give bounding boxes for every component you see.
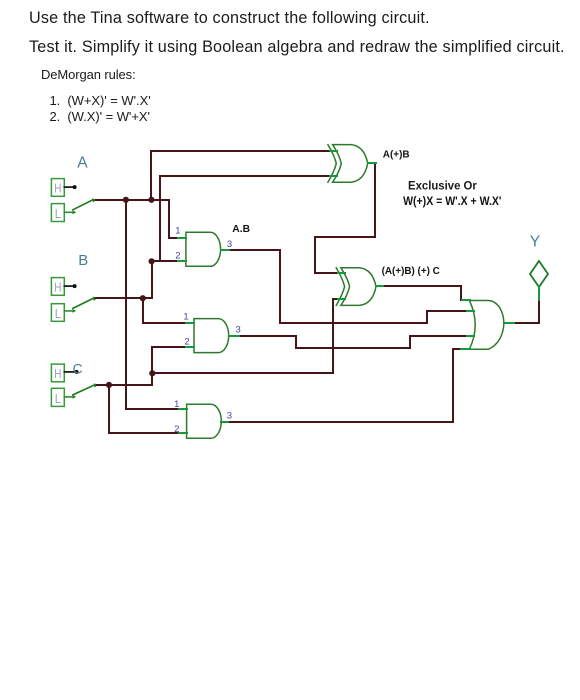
label A bbox=[77, 154, 88, 171]
wire net-A to AND1 pin1 bbox=[151, 200, 180, 238]
wire net-A to XOR1 pin1 bbox=[151, 151, 330, 200]
AND2 pin number 3 bbox=[236, 324, 241, 335]
switch SW-B H terminal box bbox=[51, 278, 64, 296]
svg-text:L: L bbox=[55, 206, 61, 221]
subheading DeMorgan rules bbox=[41, 67, 136, 82]
svg-text:H: H bbox=[54, 366, 61, 381]
label A.B bbox=[232, 223, 250, 235]
svg-text:L: L bbox=[55, 391, 61, 406]
junction node B1 bbox=[140, 295, 146, 301]
label (A(+)B) (+) C bbox=[382, 265, 441, 277]
xor-gate (A(+)B)(+)C (XOR2) leading arc bbox=[336, 268, 344, 306]
switch SW-C L terminal box bbox=[51, 388, 64, 406]
switch SW-C H stub bbox=[64, 370, 78, 374]
switch SW-B L terminal box bbox=[51, 304, 64, 322]
svg-text:A.B: A.B bbox=[232, 223, 250, 235]
xor-gate A(+)B (XOR1) body bbox=[330, 145, 376, 183]
svg-text:2: 2 bbox=[174, 424, 179, 435]
AND2 pin number 2 bbox=[184, 337, 189, 348]
and-gate A.C (AND3) body bbox=[179, 404, 228, 438]
switch SW-C H terminal box bbox=[51, 364, 64, 382]
label Exclusive Or bbox=[408, 178, 477, 192]
rule 2 bbox=[50, 109, 150, 124]
label C bbox=[73, 360, 83, 376]
svg-text:Y: Y bbox=[530, 233, 540, 250]
wire net-B to AND1 pin2 bbox=[143, 261, 180, 298]
wire net-B main bbox=[96, 297, 143, 299]
switch SW-A H terminal box bbox=[51, 179, 64, 197]
switch SW-B lever bbox=[73, 297, 98, 309]
heading line 2 bbox=[29, 38, 565, 57]
rule 1 bbox=[50, 93, 151, 108]
wire net-B to XOR1 pin2 bbox=[160, 176, 330, 261]
wire XOR1 output to XOR2 pin1 bbox=[315, 163, 375, 273]
label B bbox=[78, 252, 88, 269]
wire AND3 output to OR pin4 bbox=[228, 349, 462, 422]
svg-text:1: 1 bbox=[175, 226, 180, 237]
svg-text:2: 2 bbox=[184, 337, 189, 348]
label W(+)X formula bbox=[403, 194, 501, 208]
AND1 pin number 1 bbox=[175, 226, 180, 237]
AND1 pin number 2 bbox=[175, 250, 180, 261]
and-gate A.B (AND1) body bbox=[178, 232, 229, 266]
wire AND2 output to OR pin3 bbox=[239, 336, 468, 348]
wire net-B to AND2 pin1 bbox=[143, 298, 188, 323]
svg-text:C: C bbox=[73, 360, 83, 376]
svg-text:3: 3 bbox=[227, 239, 232, 250]
or-gate U-OR body bbox=[461, 300, 514, 349]
and-gate B.C (AND2) body bbox=[186, 319, 239, 353]
wire net-C to AND2 pin2 bbox=[152, 347, 188, 373]
svg-text:1: 1 bbox=[183, 311, 188, 322]
junction node B2 bbox=[149, 258, 155, 264]
switch SW-A H stub bbox=[64, 185, 76, 189]
wire net-C riser bbox=[151, 373, 153, 385]
junction node C2 bbox=[149, 370, 155, 376]
AND3 pin number 2 bbox=[174, 424, 179, 435]
heading line 1 bbox=[29, 9, 430, 28]
svg-text:Exclusive Or: Exclusive Or bbox=[408, 178, 477, 192]
AND3 pin number 1 bbox=[174, 399, 179, 410]
wire net-C main bbox=[97, 384, 152, 386]
wire net-C to XOR2 pin2 bbox=[152, 299, 338, 373]
label A(+)B bbox=[383, 149, 410, 161]
wire OR output to Y pin bbox=[514, 300, 539, 323]
switch SW-A lever bbox=[73, 198, 97, 210]
svg-text:H: H bbox=[54, 280, 61, 295]
AND3 pin number 3 bbox=[227, 411, 232, 422]
wire AND1 output to OR pin2 bbox=[229, 250, 468, 323]
svg-text:3: 3 bbox=[236, 324, 241, 335]
svg-text:B: B bbox=[78, 252, 88, 269]
switch SW-C L stub bbox=[64, 395, 76, 399]
switch SW-B H stub bbox=[64, 284, 76, 288]
wire net-A main bbox=[96, 199, 152, 201]
AND1 pin number 3 bbox=[227, 239, 232, 250]
switch SW-A L terminal box bbox=[51, 204, 64, 222]
switch SW-C lever bbox=[73, 383, 98, 395]
label Y bbox=[530, 233, 540, 250]
junction node C1 bbox=[106, 382, 112, 388]
svg-text:L: L bbox=[55, 306, 61, 321]
svg-text:H: H bbox=[54, 181, 61, 196]
xor-gate A(+)B (XOR1) leading arc bbox=[328, 145, 336, 183]
svg-text:(A(+)B) (+) C: (A(+)B) (+) C bbox=[382, 265, 441, 277]
svg-text:A(+)B: A(+)B bbox=[383, 149, 410, 161]
svg-text:3: 3 bbox=[227, 411, 232, 422]
xor-gate (A(+)B)(+)C (XOR2) body bbox=[338, 268, 383, 306]
switch SW-A L stub bbox=[64, 210, 76, 214]
AND2 pin number 1 bbox=[183, 311, 188, 322]
svg-text:1: 1 bbox=[174, 399, 179, 410]
output pin Y diamond bbox=[530, 261, 548, 300]
wire XOR2 output to OR pin1 bbox=[382, 286, 462, 300]
wire net-A to AND3 pin1 bbox=[126, 200, 180, 409]
junction node A1 bbox=[123, 197, 129, 203]
junction node A2 bbox=[148, 197, 154, 203]
svg-text:A: A bbox=[77, 154, 88, 171]
svg-text:W(+)X = W'.X + W.X': W(+)X = W'.X + W.X' bbox=[403, 194, 501, 208]
wire net-C to AND3 pin2 bbox=[109, 385, 180, 433]
svg-text:2: 2 bbox=[175, 250, 180, 261]
switch SW-B L stub bbox=[64, 309, 76, 313]
